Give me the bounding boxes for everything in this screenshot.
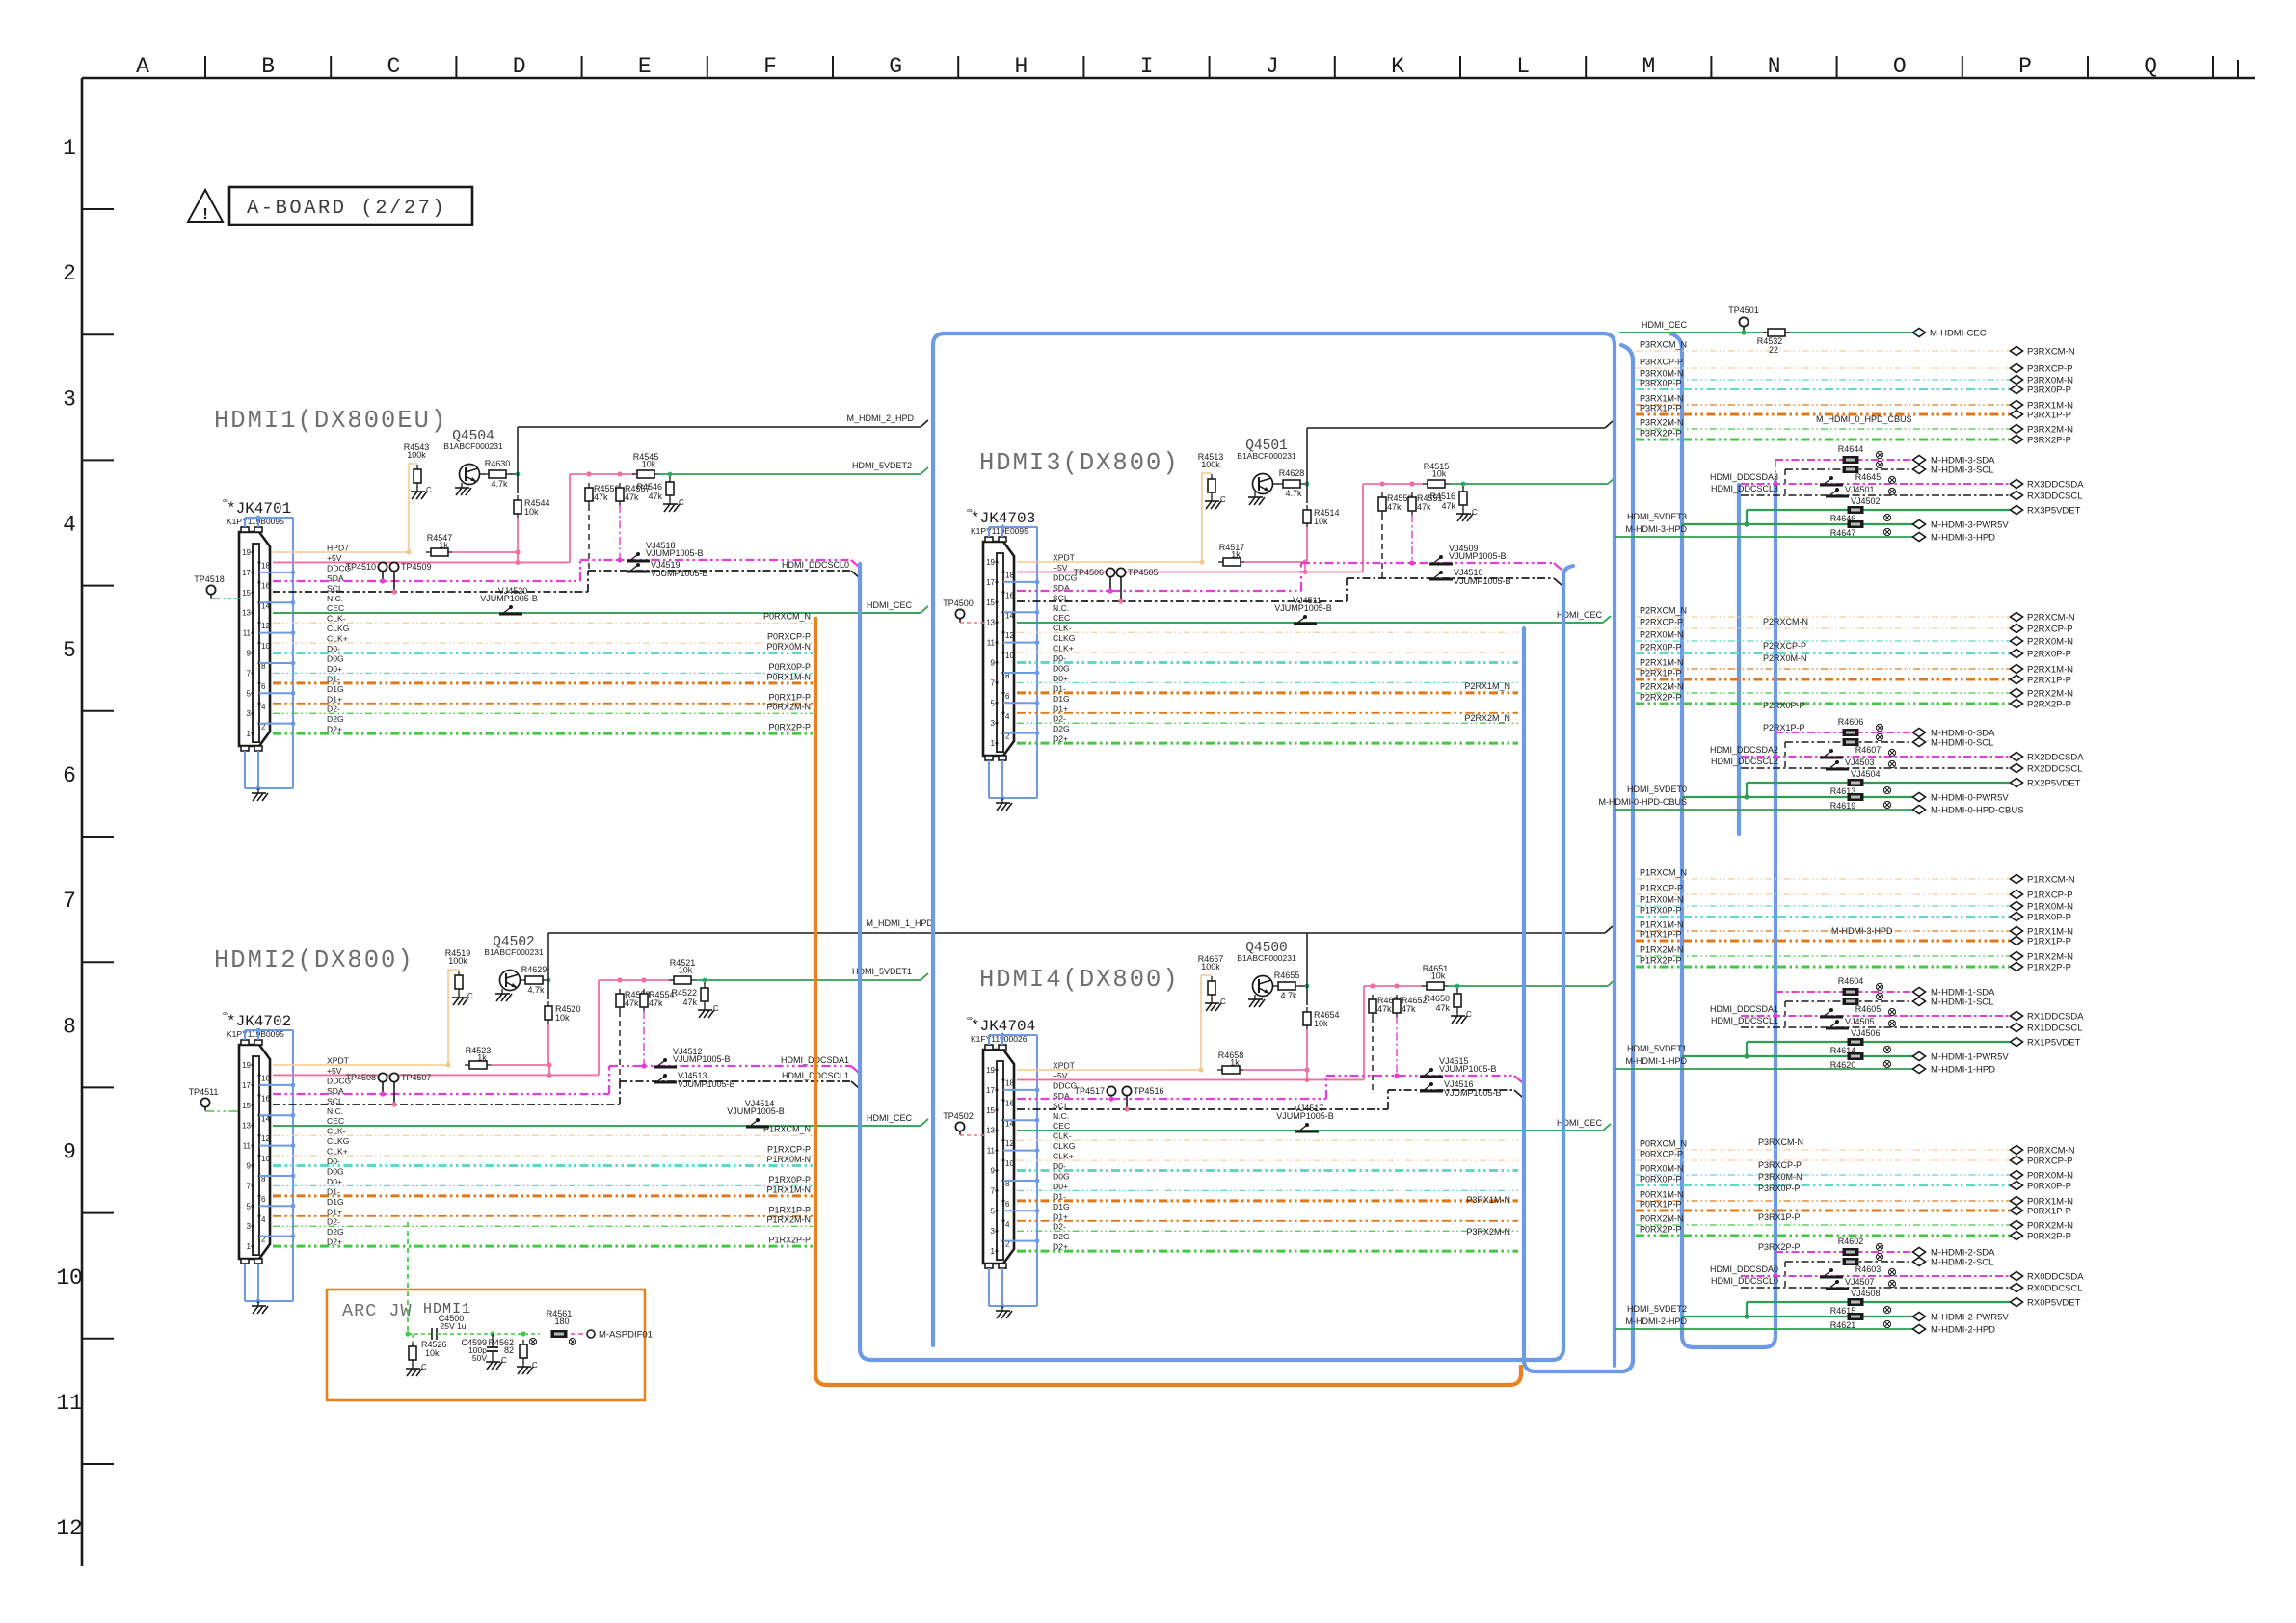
svg-text:TP4506: TP4506 bbox=[1073, 568, 1104, 577]
svg-text:RX1DDCSDA: RX1DDCSDA bbox=[2027, 1012, 2084, 1023]
svg-text:P0RXCM_N: P0RXCM_N bbox=[763, 612, 811, 622]
wire black HDMI3 HPD to right bus bbox=[1307, 427, 1605, 429]
svg-text:P1RX1M-N: P1RX1M-N bbox=[1640, 920, 1684, 930]
svg-text:VJUMP1005-B: VJUMP1005-B bbox=[673, 1054, 731, 1064]
terminal diamond M-HDMI-2-SDA bbox=[1913, 1248, 1926, 1257]
svg-text:CLK-: CLK- bbox=[327, 614, 346, 624]
svg-text:D1+: D1+ bbox=[1053, 704, 1068, 713]
wire black M-HDMI-0-SCL bbox=[1785, 741, 1913, 743]
svg-text:17: 17 bbox=[986, 1086, 995, 1095]
wire +5V peach feed HDMI3 bbox=[1017, 473, 1212, 562]
svg-text:47k: 47k bbox=[1402, 1004, 1416, 1014]
svg-text:P3RX2M-N: P3RX2M-N bbox=[1466, 1227, 1510, 1237]
wire P2RX2M-N data line bbox=[1017, 722, 1518, 724]
svg-text:15: 15 bbox=[986, 1106, 995, 1115]
wire green CEC HDMI4 bbox=[1017, 1130, 1603, 1131]
svg-text:P2RX2P-P: P2RX2P-P bbox=[2027, 700, 2071, 710]
svg-text:HDMI1(DX800EU): HDMI1(DX800EU) bbox=[214, 407, 447, 435]
svg-text:VJ4503: VJ4503 bbox=[1845, 758, 1875, 767]
wire P0RXCP-P data line bbox=[273, 642, 813, 644]
svg-text:VJUMP1005-B: VJUMP1005-B bbox=[727, 1106, 785, 1116]
terminal diamond M-HDMI-2-PWR5V bbox=[1913, 1313, 1926, 1321]
svg-text:19: 19 bbox=[242, 1061, 251, 1070]
wire P2RX1P-P to terminal bbox=[1636, 678, 2010, 681]
svg-text:*JK4702: *JK4702 bbox=[227, 1013, 291, 1030]
svg-text:M_HDMI_0_HPD_CBUS: M_HDMI_0_HPD_CBUS bbox=[1816, 414, 1912, 424]
svg-text:9: 9 bbox=[991, 659, 996, 668]
terminal diamond RX2DDCSDA bbox=[2011, 753, 2023, 761]
svg-text:P2RX1M_N: P2RX1M_N bbox=[1464, 681, 1510, 691]
svg-text:+5V: +5V bbox=[327, 1066, 342, 1076]
svg-text:VJUMP1005-B: VJUMP1005-B bbox=[651, 569, 708, 578]
svg-text:D0G: D0G bbox=[327, 1166, 344, 1176]
svg-text:3: 3 bbox=[991, 1227, 996, 1236]
terminal diamond P0RX2P-P bbox=[2011, 1232, 2023, 1240]
terminal diamond P3RX0P-P bbox=[2011, 386, 2023, 394]
svg-text:P1RX0P-P: P1RX0P-P bbox=[2027, 913, 2071, 923]
wire P3RXCP-P data line bbox=[1017, 1159, 1518, 1161]
svg-text:C: C bbox=[1220, 998, 1226, 1006]
wire magenta DDCG HDMI2 bbox=[273, 1093, 609, 1095]
wire P1RX0M-N to terminal bbox=[1636, 905, 2010, 907]
svg-text:HDMI_5VDET2: HDMI_5VDET2 bbox=[852, 461, 912, 470]
svg-text:D: D bbox=[513, 54, 526, 79]
svg-text:12: 12 bbox=[1005, 631, 1014, 640]
wire P0RX1M-N to terminal bbox=[1636, 1200, 2010, 1202]
svg-text:P2RXCP-P: P2RXCP-P bbox=[1763, 641, 1806, 651]
ground below R4543 bbox=[416, 487, 418, 492]
svg-text:C: C bbox=[1472, 508, 1478, 517]
svg-text:P1RX2M-N: P1RX2M-N bbox=[766, 1215, 811, 1225]
svg-text:RX3DDCSCL: RX3DDCSCL bbox=[2027, 492, 2083, 502]
svg-text:RX1DDCSCL: RX1DDCSCL bbox=[2027, 1024, 2083, 1034]
svg-text:HDMI_5VDET1: HDMI_5VDET1 bbox=[1627, 1044, 1687, 1053]
terminal diamond M-HDMI-CEC bbox=[1913, 329, 1926, 337]
wire P3RX1M-N data line bbox=[1017, 1199, 1518, 1202]
svg-text:D2G: D2G bbox=[327, 1227, 344, 1237]
wire pink below R4544 bbox=[517, 518, 519, 552]
wire black SDA/SCL HDMI1 bbox=[273, 591, 588, 593]
wire P2RX1M-N data line bbox=[1017, 691, 1518, 694]
wire pink +5V row HDMI2 bbox=[273, 1074, 599, 1076]
svg-text:HDMI_5VDET2: HDMI_5VDET2 bbox=[1627, 1304, 1687, 1314]
svg-text:HDMI_CEC: HDMI_CEC bbox=[867, 1113, 913, 1123]
wire black collector HDMI3 bbox=[1306, 428, 1308, 503]
svg-text:RX0P5VDET: RX0P5VDET bbox=[2027, 1298, 2081, 1309]
svg-text:VJUMP1005-B: VJUMP1005-B bbox=[678, 1079, 735, 1089]
svg-text:47k: 47k bbox=[1387, 502, 1402, 512]
svg-text:8: 8 bbox=[63, 1014, 76, 1039]
svg-text:6: 6 bbox=[1005, 692, 1010, 701]
connector HDMI2 ground symbol bbox=[257, 1301, 259, 1306]
wire green 5VDET HDMI3 bbox=[1449, 483, 1608, 485]
svg-text:3: 3 bbox=[63, 386, 76, 412]
svg-text:5: 5 bbox=[991, 699, 996, 707]
terminal diamond RX1P5VDET bbox=[2011, 1038, 2023, 1047]
svg-text:CLKG: CLKG bbox=[327, 624, 350, 633]
svg-text:P0RX1M-N: P0RX1M-N bbox=[1640, 1190, 1684, 1200]
terminal diamond RX1DDCSDA bbox=[2011, 1012, 2023, 1021]
resistor R4615 bbox=[1848, 1299, 1863, 1306]
svg-text:P3RX2M-N: P3RX2M-N bbox=[1640, 418, 1684, 428]
terminal diamond P1RX2P-P bbox=[2011, 963, 2023, 971]
terminal diamond P1RXCM-N bbox=[2011, 875, 2023, 884]
svg-text:ARC JW: ARC JW bbox=[342, 1301, 413, 1321]
svg-text:47k: 47k bbox=[594, 492, 608, 502]
svg-text:P1RXCM_N: P1RXCM_N bbox=[1640, 868, 1687, 878]
connector HDMI4 body bbox=[983, 1050, 1014, 1264]
svg-text:HDMI_DDCSCL0: HDMI_DDCSCL0 bbox=[782, 560, 849, 570]
svg-text:HDMI_DDCSCL0: HDMI_DDCSCL0 bbox=[1711, 1276, 1778, 1286]
svg-text:P2RXCP-P: P2RXCP-P bbox=[1640, 618, 1683, 627]
svg-text:100k: 100k bbox=[1201, 460, 1220, 469]
svg-text:16: 16 bbox=[1005, 591, 1014, 599]
svg-text:R4645: R4645 bbox=[1855, 472, 1882, 482]
svg-text:P3RX2M-N: P3RX2M-N bbox=[2027, 425, 2073, 436]
svg-text:P3RX1P-P: P3RX1P-P bbox=[1640, 404, 1682, 413]
terminal diamond P2RX1P-P bbox=[2011, 676, 2023, 684]
svg-text:TP4507: TP4507 bbox=[401, 1073, 432, 1082]
resistor R4646 bbox=[1848, 507, 1863, 514]
wire pink below R4520 bbox=[547, 1024, 549, 1065]
svg-text:P0RX1M-N: P0RX1M-N bbox=[766, 672, 811, 681]
svg-text:HDMI_DDCSCL3: HDMI_DDCSCL3 bbox=[1711, 484, 1778, 493]
svg-text:P0RX1P-P: P0RX1P-P bbox=[2027, 1207, 2071, 1217]
svg-text:P1RXCM-N: P1RXCM-N bbox=[2027, 875, 2075, 886]
svg-text:P3RX0P-P: P3RX0P-P bbox=[1758, 1184, 1801, 1193]
wire black collector HDMI4 bbox=[1306, 933, 1308, 1005]
wire pink row19 HDMI3 bbox=[1244, 561, 1305, 563]
svg-text:47k: 47k bbox=[648, 492, 662, 501]
svg-text:P1RX1P-P: P1RX1P-P bbox=[1640, 930, 1682, 940]
svg-text:CEC: CEC bbox=[327, 603, 344, 613]
svg-text:P0RX1P-P: P0RX1P-P bbox=[768, 692, 811, 702]
terminal diamond M-HDMI-0-SDA bbox=[1913, 729, 1926, 737]
svg-text:H: H bbox=[1014, 54, 1028, 79]
svg-text:J: J bbox=[1266, 54, 1279, 79]
svg-text:2: 2 bbox=[63, 261, 76, 286]
bus blue path E (x1581 vertical / bottom y1423 / x1692 P0RX feeder) bbox=[1524, 628, 1633, 1371]
wire green 5VDET HDMI1 bbox=[658, 473, 921, 475]
svg-text:19: 19 bbox=[242, 548, 251, 557]
svg-text:B1ABCF000231: B1ABCF000231 bbox=[1237, 451, 1296, 461]
wire magenta M-HDMI-3-SDA bbox=[1775, 459, 1913, 461]
wire P1RXCP-P data line bbox=[273, 1155, 813, 1157]
ARC JW boundary box (orange) bbox=[327, 1290, 645, 1400]
svg-text:CEC: CEC bbox=[1053, 1121, 1070, 1131]
svg-text:13: 13 bbox=[242, 1122, 251, 1131]
wire black collector HDMI1 bbox=[517, 427, 519, 493]
svg-text:R4628: R4628 bbox=[1279, 468, 1305, 478]
svg-text:11: 11 bbox=[987, 1147, 996, 1156]
svg-text:P3RX1M-N: P3RX1M-N bbox=[1466, 1195, 1510, 1205]
svg-text:10: 10 bbox=[261, 642, 270, 651]
connector HDMI1 body bbox=[239, 532, 270, 746]
terminal diamond RX3DDCSCL bbox=[2011, 492, 2023, 500]
terminal diamond RX3DDCSDA bbox=[2011, 480, 2023, 489]
svg-text:D0G: D0G bbox=[1053, 1171, 1070, 1181]
svg-text:VJ4502: VJ4502 bbox=[1851, 496, 1881, 506]
terminal diamond RX0P5VDET bbox=[2011, 1298, 2023, 1307]
svg-text:25V 1u: 25V 1u bbox=[441, 1321, 467, 1331]
terminal diamond M-HDMI-3-HPD bbox=[1913, 533, 1926, 542]
left ruler tick marks bbox=[82, 209, 114, 1464]
svg-text:P3RX1P-P: P3RX1P-P bbox=[1758, 1212, 1801, 1222]
svg-text:P2RX1P-P: P2RX1P-P bbox=[2027, 676, 2071, 686]
svg-text:C: C bbox=[467, 992, 473, 1000]
wire magenta dashed below R4557 bbox=[619, 505, 621, 560]
wire magenta dashed below R4551 bbox=[1411, 515, 1413, 563]
bus blue path D (x1745 / bottom / x1842 riser) bbox=[1670, 333, 1775, 1347]
svg-text:12: 12 bbox=[56, 1516, 83, 1541]
svg-text:47k: 47k bbox=[1377, 1004, 1392, 1014]
terminal diamond P0RX2M-N bbox=[2011, 1221, 2023, 1230]
svg-text:P1RXCP-P: P1RXCP-P bbox=[1640, 884, 1683, 893]
svg-text:HDMI_CEC: HDMI_CEC bbox=[867, 600, 913, 610]
svg-text:10k: 10k bbox=[1314, 517, 1328, 526]
wire black SDA/SCL HDMI3 bbox=[1017, 600, 1347, 602]
bus orange path bbox=[815, 617, 1521, 1385]
page border left line bbox=[81, 78, 84, 1566]
svg-text:4.7k: 4.7k bbox=[1285, 489, 1302, 498]
svg-text:P3RXCP-P: P3RXCP-P bbox=[1640, 358, 1683, 367]
svg-text:M-HDMI-2-PWR5V: M-HDMI-2-PWR5V bbox=[1931, 1313, 2009, 1323]
jumper VJ4502 VJUMP1005-B bbox=[1826, 495, 1849, 498]
svg-text:P3RX0M-N: P3RX0M-N bbox=[1758, 1172, 1802, 1182]
terminal diamond RX1DDCSCL bbox=[2011, 1024, 2023, 1032]
svg-text:D1G: D1G bbox=[327, 1197, 344, 1207]
svg-text:CLK+: CLK+ bbox=[327, 634, 348, 644]
wire pink below R4514 bbox=[1306, 527, 1308, 562]
svg-text:P2RX0P-P: P2RX0P-P bbox=[2027, 650, 2071, 660]
svg-text:B1ABCF000231: B1ABCF000231 bbox=[484, 947, 544, 957]
svg-text:P3RX0P-P: P3RX0P-P bbox=[2027, 386, 2071, 396]
wire black SDA/SCL HDMI4 bbox=[1017, 1108, 1388, 1110]
svg-text:CLKG: CLKG bbox=[327, 1136, 350, 1146]
connector HDMI1 ground symbol bbox=[257, 788, 259, 793]
svg-text:HDMI_DDCSDA2: HDMI_DDCSDA2 bbox=[1710, 745, 1778, 755]
svg-text:M_HDMI_2_HPD: M_HDMI_2_HPD bbox=[846, 413, 914, 423]
svg-text:+5V: +5V bbox=[1053, 563, 1068, 572]
svg-text:R4604: R4604 bbox=[1838, 976, 1864, 986]
svg-text:47k: 47k bbox=[1441, 501, 1455, 511]
svg-text:5: 5 bbox=[63, 638, 76, 663]
svg-text:16: 16 bbox=[261, 581, 270, 590]
svg-text:P0RXCP-P: P0RXCP-P bbox=[1640, 1150, 1683, 1159]
ground below Q4504 bbox=[461, 483, 463, 488]
svg-text:10k: 10k bbox=[642, 460, 656, 469]
terminal diamond P3RXCP-P bbox=[2011, 364, 2023, 373]
svg-text:P0RX2M-N: P0RX2M-N bbox=[2027, 1221, 2073, 1232]
wire pink rail HDMI1 bbox=[570, 473, 633, 475]
wire P3RXCM_N data line bbox=[1017, 1139, 1518, 1141]
terminal diamond M-HDMI-2-HPD bbox=[1913, 1325, 1926, 1334]
svg-text:P: P bbox=[2018, 54, 2032, 79]
resistor R4553 47k bbox=[619, 989, 621, 994]
svg-text:18: 18 bbox=[261, 1074, 270, 1082]
svg-text:P0RX0P-P: P0RX0P-P bbox=[2027, 1182, 2071, 1192]
connector HDMI3 ground symbol bbox=[1001, 798, 1003, 803]
connector HDMI3 shield ground bus (blue) bbox=[989, 525, 1039, 801]
svg-text:XPDT: XPDT bbox=[1053, 553, 1076, 563]
wire P2RXCM-N to terminal bbox=[1636, 616, 2010, 618]
svg-text:D0G: D0G bbox=[1053, 663, 1070, 673]
svg-text:N.C.: N.C. bbox=[1053, 1111, 1069, 1121]
svg-text:19: 19 bbox=[986, 1066, 995, 1075]
svg-text:CLK+: CLK+ bbox=[327, 1147, 348, 1157]
wire P0RX1P-P to terminal bbox=[1636, 1210, 2010, 1212]
terminal diamond RX2P5VDET bbox=[2011, 779, 2023, 787]
ground below R4516 bbox=[1462, 509, 1464, 514]
svg-text:P2RX0P-P: P2RX0P-P bbox=[1763, 701, 1805, 710]
svg-text:7: 7 bbox=[991, 678, 996, 687]
ground below R4522 bbox=[704, 1005, 706, 1010]
svg-text:1: 1 bbox=[247, 730, 252, 738]
wire black dashed below R4550 bbox=[1381, 515, 1383, 578]
svg-text:P2RX0M-N: P2RX0M-N bbox=[2027, 637, 2073, 648]
wire +5V peach feed HDMI2 bbox=[273, 970, 459, 1065]
wire P3RX2M-N data line bbox=[1017, 1230, 1518, 1232]
svg-text:100k: 100k bbox=[448, 956, 467, 966]
svg-text:M-HDMI-3-PWR5V: M-HDMI-3-PWR5V bbox=[1931, 520, 2009, 531]
wire P1RXCM_N data line bbox=[273, 1134, 813, 1136]
svg-text:VJUMP1005-B: VJUMP1005-B bbox=[1276, 1111, 1334, 1121]
svg-text:13: 13 bbox=[986, 619, 995, 627]
svg-text:XPDT: XPDT bbox=[1053, 1061, 1076, 1071]
svg-text:R4655: R4655 bbox=[1274, 971, 1300, 980]
svg-text:R4607: R4607 bbox=[1855, 745, 1882, 755]
svg-text:P1RX0P-P: P1RX0P-P bbox=[768, 1175, 811, 1184]
connector HDMI4 ground symbol bbox=[1001, 1306, 1003, 1311]
svg-text:D2-: D2- bbox=[327, 705, 340, 714]
svg-text:4.7k: 4.7k bbox=[527, 985, 545, 995]
svg-text:M-HDMI-3-HPD: M-HDMI-3-HPD bbox=[1626, 524, 1688, 534]
wire black dashed below R4553 bbox=[619, 1011, 621, 1081]
jumper VJ4504 VJUMP1005-B bbox=[1826, 768, 1849, 771]
svg-text:P3RXCP-P: P3RXCP-P bbox=[1758, 1160, 1802, 1170]
wire P1RX0M-N data line bbox=[273, 1164, 813, 1167]
svg-text:RX2DDCSDA: RX2DDCSDA bbox=[2027, 753, 2084, 763]
wire P2RX0M-N data line bbox=[1017, 661, 1518, 664]
wire P2RX0P-P data line bbox=[1017, 681, 1518, 683]
svg-text:P2RX1P-P: P2RX1P-P bbox=[1763, 723, 1805, 732]
terminal diamond P3RXCM-N bbox=[2011, 347, 2023, 356]
svg-text:18: 18 bbox=[1005, 571, 1014, 579]
terminal diamond M-HDMI-1-HPD bbox=[1913, 1065, 1926, 1074]
svg-text:P0RX0M-N: P0RX0M-N bbox=[2027, 1171, 2073, 1182]
wire magenta to M-ASPDIF01 bbox=[571, 1333, 586, 1335]
svg-text:M-HDMI-2-HPD: M-HDMI-2-HPD bbox=[1931, 1325, 1995, 1336]
terminal diamond M-HDMI-3-SCL bbox=[1913, 466, 1926, 474]
svg-text:P3RX0M-N: P3RX0M-N bbox=[1640, 369, 1684, 379]
svg-text:HDMI_CEC: HDMI_CEC bbox=[1642, 320, 1688, 330]
svg-text:47k: 47k bbox=[1417, 502, 1431, 512]
svg-text:M-HDMI-1-HPD: M-HDMI-1-HPD bbox=[1931, 1065, 1995, 1076]
svg-text:VJUMP1005-B: VJUMP1005-B bbox=[646, 548, 704, 558]
svg-text:P0RX2P-P: P0RX2P-P bbox=[768, 723, 811, 732]
wire P0RXCM-N to terminal bbox=[1636, 1149, 2010, 1151]
svg-text:16: 16 bbox=[261, 1094, 270, 1103]
svg-text:TP4509: TP4509 bbox=[401, 562, 432, 572]
svg-text:VJ4501: VJ4501 bbox=[1845, 485, 1875, 494]
wire P0RX1P-P data line bbox=[273, 703, 813, 705]
terminal diamond M-HDMI-0-HPD-CBUS bbox=[1913, 806, 1926, 814]
svg-text:P1RXCP-P: P1RXCP-P bbox=[2027, 891, 2073, 901]
connector HDMI2 shield ground bus (blue) bbox=[245, 1028, 295, 1304]
svg-text:10k: 10k bbox=[1432, 469, 1447, 479]
ground below R4546 bbox=[669, 499, 671, 504]
wire P3RXCP-P to terminal bbox=[1636, 367, 2010, 369]
wire black M_HDMI_1_HPD (HDMI2/HDMI4 shared) bbox=[548, 932, 1605, 934]
svg-text:G: G bbox=[889, 54, 902, 79]
svg-text:4.7k: 4.7k bbox=[491, 479, 508, 489]
svg-text:N.C.: N.C. bbox=[1053, 603, 1069, 613]
svg-text:HDMI_DDCSDA1: HDMI_DDCSDA1 bbox=[1710, 1004, 1778, 1014]
jumper VJ4501 VJUMP1005-B bbox=[1820, 484, 1843, 487]
svg-text:5: 5 bbox=[247, 1202, 252, 1211]
wire P3RX0P-P data line bbox=[1017, 1189, 1518, 1191]
svg-text:HDMI_5VDET0: HDMI_5VDET0 bbox=[1627, 785, 1687, 794]
wire P1RX2P-P to terminal bbox=[1636, 966, 2010, 969]
svg-text:1: 1 bbox=[247, 1242, 252, 1251]
svg-text:HDMI4(DX800): HDMI4(DX800) bbox=[979, 966, 1180, 994]
wire P0RX2M-N to terminal bbox=[1636, 1224, 2010, 1226]
terminal diamond P3RX1M-N bbox=[2011, 401, 2023, 410]
wire black M-HDMI-1-SCL bbox=[1785, 1000, 1913, 1002]
svg-text:10: 10 bbox=[261, 1155, 270, 1163]
svg-text:9: 9 bbox=[63, 1140, 76, 1165]
wire P3RX0P-P to terminal bbox=[1636, 388, 2010, 390]
resistor R4628 4.7k bbox=[1273, 483, 1280, 485]
svg-text:1: 1 bbox=[63, 136, 76, 161]
terminal diamond P1RX0P-P bbox=[2011, 913, 2023, 921]
connector HDMI3 pin name labels bbox=[1053, 553, 1078, 744]
svg-text:7: 7 bbox=[247, 1182, 252, 1190]
svg-text:10: 10 bbox=[1005, 652, 1014, 660]
svg-text:TP4518: TP4518 bbox=[194, 574, 225, 584]
wire P2RX0M-N to terminal bbox=[1636, 640, 2010, 642]
wire pink below R4654 bbox=[1306, 1029, 1308, 1070]
resistor R4652 47k bbox=[1396, 995, 1398, 999]
svg-text:CEC: CEC bbox=[1053, 613, 1070, 623]
svg-text:K: K bbox=[1391, 54, 1404, 79]
svg-text:VJ4504: VJ4504 bbox=[1851, 769, 1881, 779]
connector HDMI3 body bbox=[983, 542, 1014, 756]
svg-text:P3RX2P-P: P3RX2P-P bbox=[1640, 429, 1682, 439]
svg-text:CLKG: CLKG bbox=[1053, 1141, 1076, 1151]
wire pink +5V row HDMI1 bbox=[273, 561, 570, 563]
svg-text:B1ABCF000231: B1ABCF000231 bbox=[1237, 953, 1296, 963]
wire pink row19 HDMI1 bbox=[452, 551, 518, 553]
terminal diamond P0RXCP-P bbox=[2011, 1157, 2023, 1165]
terminal diamond P0RX0M-N bbox=[2011, 1171, 2023, 1180]
terminal diamond P1RX2M-N bbox=[2011, 952, 2023, 961]
svg-text:4.7k: 4.7k bbox=[1280, 991, 1297, 1000]
svg-text:VJUMP1005-B: VJUMP1005-B bbox=[1274, 603, 1332, 613]
svg-text:P3RXCP-P: P3RXCP-P bbox=[2027, 364, 2073, 375]
svg-text:1: 1 bbox=[991, 1247, 996, 1256]
svg-text:M-HDMI-1-PWR5V: M-HDMI-1-PWR5V bbox=[1931, 1052, 2009, 1063]
svg-text:10k: 10k bbox=[1314, 1019, 1328, 1028]
ground below R4657 bbox=[1211, 998, 1213, 1003]
wire pink rail HDMI4 bbox=[1364, 985, 1423, 987]
wire green CEC HDMI3 bbox=[1017, 622, 1603, 624]
svg-text:P2RX2M_N: P2RX2M_N bbox=[1464, 713, 1510, 723]
svg-text:HDMI_5VDET3: HDMI_5VDET3 bbox=[1627, 512, 1687, 521]
svg-text:C: C bbox=[387, 54, 400, 79]
svg-text:47k: 47k bbox=[1435, 1003, 1450, 1013]
svg-text:3: 3 bbox=[247, 1222, 252, 1231]
